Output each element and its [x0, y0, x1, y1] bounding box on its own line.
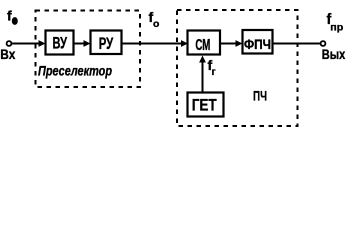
arrowhead into ВУ [39, 40, 46, 47]
arrowhead into СМ bottom [199, 56, 206, 63]
svg-text:пр: пр [330, 22, 343, 34]
wire ГЕТ up to СМ [202, 59, 204, 93]
svg-text:ГЕТ: ГЕТ [192, 96, 217, 115]
wire ФПЧ to output node [273, 43, 321, 45]
block ФПЧ [243, 30, 273, 54]
wire СМ to ФПЧ [220, 43, 239, 45]
svg-text:ПЧ: ПЧ [253, 88, 267, 103]
svg-text:f: f [7, 8, 12, 24]
arrowhead into СМ [181, 40, 188, 47]
block СМ [188, 31, 221, 55]
node Вх input circle [7, 41, 12, 46]
block РУ [91, 31, 122, 55]
node Вых output circle [321, 41, 326, 46]
svg-text:о: о [153, 18, 159, 30]
svg-text:ВУ: ВУ [53, 34, 68, 52]
block ГЕТ [188, 93, 224, 117]
svg-text:РУ: РУ [99, 34, 114, 53]
label fпр (output frequency) [327, 12, 344, 34]
wire РУ to СМ [122, 43, 185, 45]
wire ВУ to РУ [74, 43, 87, 45]
block ВУ [46, 31, 74, 55]
dashed box Преселектор [36, 11, 141, 88]
svg-text:СМ: СМ [195, 37, 210, 54]
label fг (heterodyne frequency) [208, 57, 216, 78]
arrowhead into РУ [84, 40, 91, 47]
arrowhead into ФПЧ [236, 40, 243, 47]
svg-text:Преселектор: Преселектор [38, 63, 112, 79]
svg-text:Вых: Вых [322, 47, 346, 62]
wire input node to ВУ [11, 43, 41, 45]
dashed box ПЧ [177, 10, 298, 126]
svg-text:г: г [212, 67, 216, 78]
svg-text:Вх: Вх [0, 47, 15, 62]
label fc (input frequency) [7, 8, 18, 25]
svg-text:ФПЧ: ФПЧ [244, 37, 271, 52]
label fo (between boxes) [149, 9, 160, 30]
